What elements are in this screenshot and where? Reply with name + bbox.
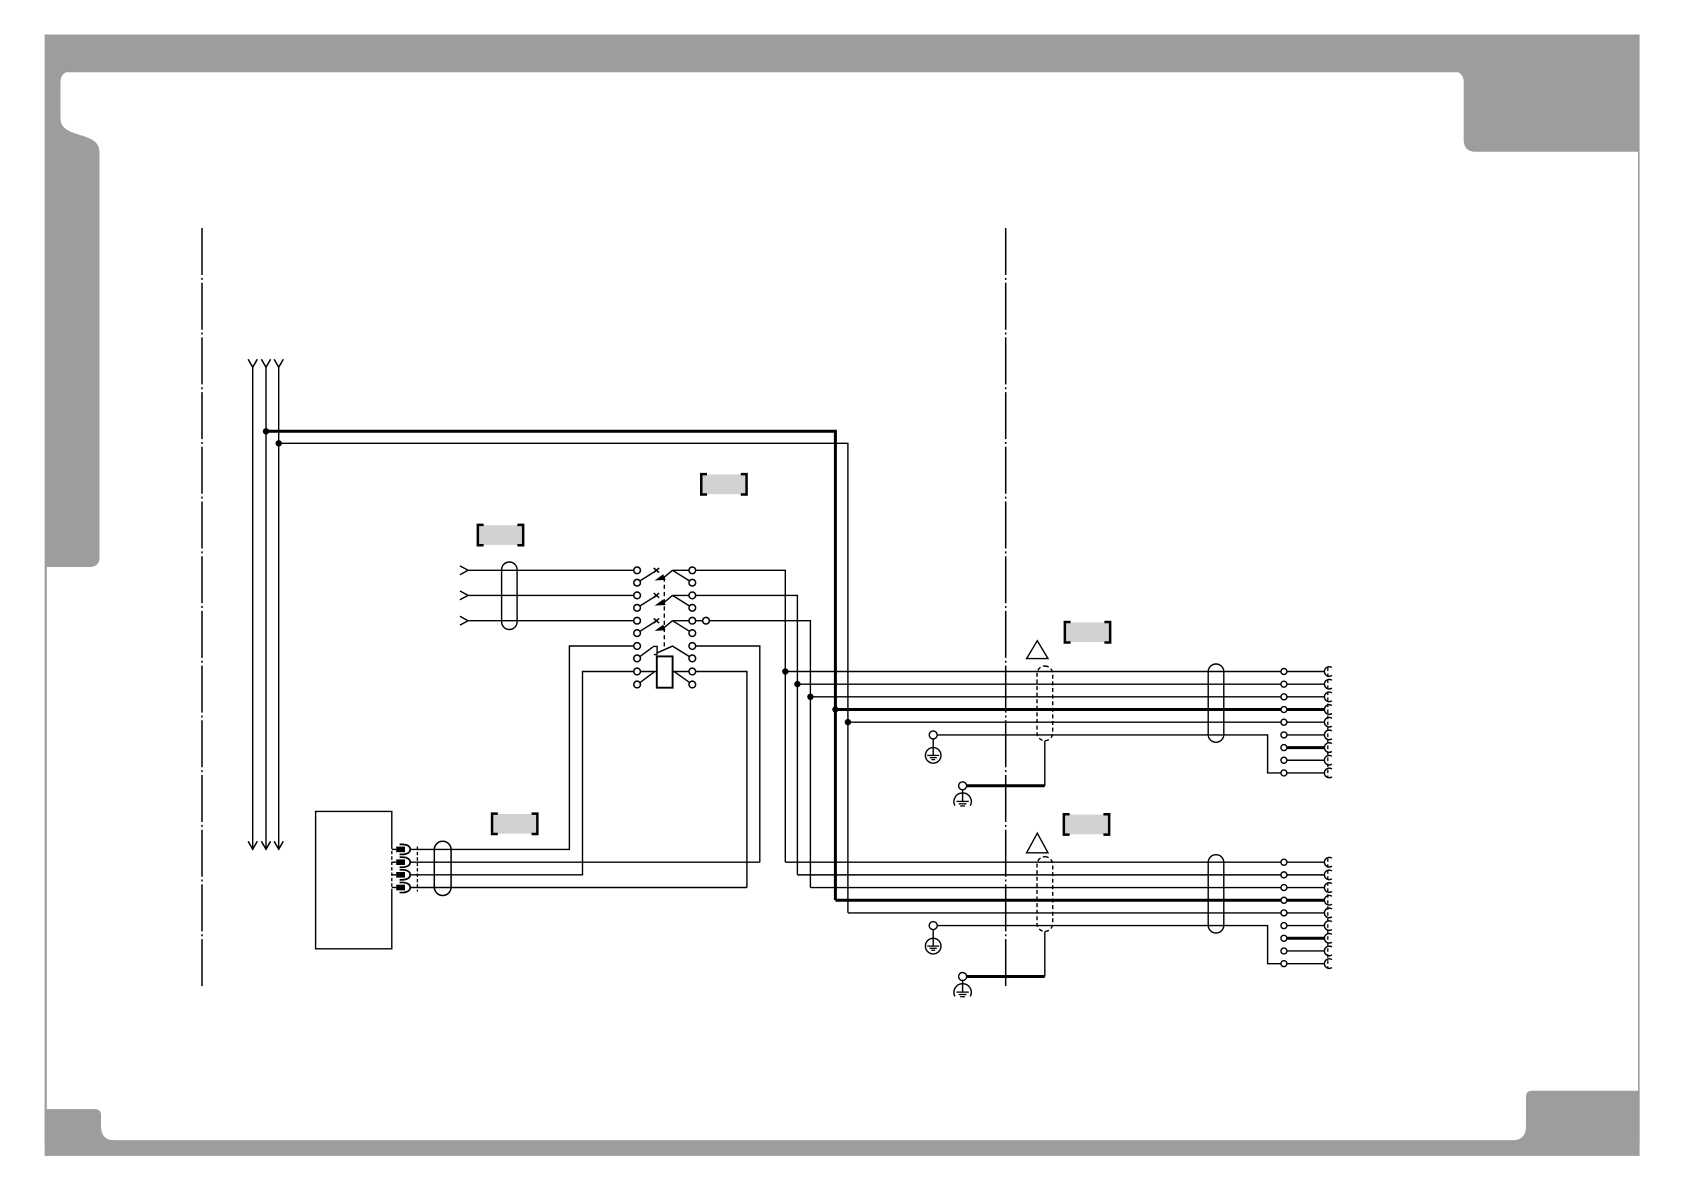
contactor pole 1 moving contact [673,570,690,581]
PCB pin 1 [392,848,396,850]
supply line L2 with arrows [261,359,270,367]
chassis centerline left (dash-dot) [201,228,203,987]
row5 wire coil to contact [673,671,689,673]
PE symbol [932,739,934,756]
label box upper middle [703,475,746,495]
contactor pole 2 blade and break marker [640,596,656,606]
wire row5 output right [696,672,747,888]
harness wire 4 [835,708,1280,711]
harness wire 2 [797,874,1280,876]
PCB pin 3 [392,874,396,876]
warning triangle [1027,833,1048,853]
contactor pole 3 fixed contacts [634,617,641,624]
cable bundle marker input [502,562,517,630]
chassis ground terminal circle [959,782,967,790]
connector pin 2 [1281,681,1287,687]
contactor pole 1 actuator arrow [655,574,666,580]
input arrow phase 2 [460,591,468,600]
protective earth wire [937,735,1280,773]
connector pin 9 [1281,961,1287,967]
input arrow phase 1 [460,566,468,575]
contactor pole 3 moving contact [673,621,690,632]
supply line L3 with arrows [274,359,283,367]
connector pin 4 [1281,897,1287,903]
PE terminal circle [929,731,937,739]
wire pole2 output [696,595,798,874]
coil K1 [657,656,673,687]
connector pin 9 [1281,770,1287,776]
connector pin 3 [1281,885,1287,891]
connector pin 5 [1281,719,1287,725]
harness wire 5 [848,912,1281,914]
terminal circle row3 output [703,617,710,624]
contactor pole 1 blade and break marker [640,571,656,581]
chassis ground terminal circle [959,973,967,981]
PCB box [316,811,392,948]
connector pin 7 [1281,745,1287,751]
relay contacts row5 [634,668,641,675]
row5 blade right [674,671,690,682]
page frame bottom-left tab [45,1109,115,1141]
row5 blade left [640,672,654,683]
connector pin 8 [1281,948,1287,954]
shield drain wire [967,784,1045,787]
supply line L1 with arrows [248,359,257,367]
wire row5 right to PCB pin4 [410,887,747,889]
junction [845,719,851,725]
contactor pole 3 blade and break marker [640,621,656,631]
harness wire 3 [810,887,1280,889]
page frame left column and left edge line [45,71,100,1140]
label box PCB [493,814,536,834]
aux contact row4 blade [640,647,653,657]
connector pin 6 [1281,732,1287,738]
connector pin 1 [1281,859,1287,865]
mechanical linkage dashed line [663,578,665,647]
wire row5 left frame [410,672,634,875]
contactor pole 2 moving contact [673,595,690,606]
harness wire 3 [810,696,1280,698]
wire row4 right to PCB pin2 [410,861,760,863]
PCB connector dashed housing [391,846,393,892]
input arrow phase 3 [460,616,468,625]
connector pin 5 [1281,910,1287,916]
warning triangle [1027,641,1048,659]
chassis centerline right (dash-dot) [1005,228,1007,987]
harness wire 5 [848,721,1281,723]
page frame top-right tab [1454,71,1640,152]
harness wire 2 [797,683,1280,685]
junction [807,694,813,700]
connector pin 6 [1281,923,1287,929]
connector pin dashed line [1327,858,1329,967]
connector pin 8 [1281,757,1287,763]
cable bundle marker right [1208,855,1224,933]
aux contact row4 moving contact [657,646,690,657]
harness wire 1 [785,671,1280,673]
aux contact row4 armature [653,646,658,654]
wire pole3 output [709,621,810,888]
wire aux row4 output right [696,646,760,862]
wire thick: L2 to right bus [266,431,835,900]
wire aux row4 left frame [410,646,634,849]
junction [782,668,788,674]
aux contact row4 fixed contacts [634,643,641,650]
wire: L3 to right bus [279,443,848,913]
wire phase 2 into contactor [468,594,634,596]
page frame top bar [45,35,1640,73]
connector pin 1 [1281,669,1287,675]
label box left [479,525,522,545]
junction [794,681,800,687]
cable clamp dashed [1037,857,1053,932]
shield drain wire [967,975,1045,978]
harness wire 1 [785,861,1280,863]
wire pole1 output [696,570,786,862]
node on L3 [276,440,282,446]
cable clamp dashed [1037,666,1053,741]
junction thick bus [832,706,838,712]
cable bundle marker right [1208,664,1224,742]
label box right top [1066,622,1109,642]
protective earth wire [937,926,1280,964]
cable bundle marker PCB [434,841,451,895]
PE terminal circle [929,922,937,930]
node on L2 [263,428,269,434]
connector pin dashed line [1327,668,1329,777]
wire phase 1 into contactor [468,569,634,571]
chassis ground symbol [962,981,964,993]
label box right bottom [1065,815,1108,835]
connector pin 3 [1281,694,1287,700]
connector pin 2 [1281,872,1287,878]
connector pin 4 [1281,707,1287,713]
row5 wire to coil [640,671,656,673]
wire phase 3 into contactor [468,620,634,622]
PCB pin 2 [392,861,396,863]
contactor pole 2 fixed contacts [634,592,641,599]
page frame bottom-right tab [1512,1091,1640,1142]
PCB pin 4 [392,887,396,889]
page frame bottom bar [45,1140,1640,1156]
chassis ground symbol [962,790,964,802]
page frame right edge line [1638,152,1640,1140]
contactor pole 3 actuator arrow [655,625,666,631]
contactor pole 2 actuator arrow [655,599,666,605]
PE symbol [932,930,934,947]
harness wire 4 [835,899,1280,902]
connector pin 7 [1281,935,1287,941]
contactor pole 1 fixed contacts [634,567,641,574]
